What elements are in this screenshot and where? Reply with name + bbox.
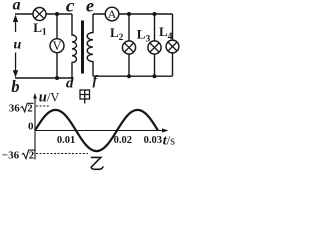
arrow down (voltage u, bottom): [13, 53, 18, 78]
svg-text:u: u: [14, 38, 22, 53]
wire branch L3: [154, 14, 156, 76]
svg-text:t/s: t/s: [163, 133, 175, 148]
wire branch L2: [128, 14, 130, 76]
voltmeter V: [50, 39, 64, 53]
graph y-axis: [34, 97, 36, 160]
transformer core: [81, 21, 84, 74]
graph x-axis: [35, 130, 163, 132]
wire voltmeter branch: [56, 14, 58, 78]
svg-text:c: c: [66, 0, 75, 16]
junction dot (top L2 tap): [127, 12, 131, 16]
svg-text:e: e: [86, 0, 94, 15]
dashed level -36root2: [36, 153, 88, 155]
dashed level +36root2: [36, 105, 50, 107]
wire top-right (e to L4 branch): [93, 13, 173, 15]
svg-text:V: V: [52, 39, 61, 53]
figure label jia (circuit): [80, 90, 90, 104]
junction dot (bottom L3 tap): [153, 74, 157, 78]
svg-text:2: 2: [29, 150, 34, 161]
svg-text:0.01: 0.01: [57, 135, 75, 146]
lamp L3: [148, 41, 161, 54]
svg-text:A: A: [108, 7, 117, 21]
transformer secondary coil: [87, 14, 93, 76]
lamp L4: [166, 40, 179, 53]
y value minus 36root2: [2, 149, 36, 161]
wire top-left (a to c): [15, 13, 72, 15]
svg-text:u/V: u/V: [39, 89, 60, 105]
lamp L1: [33, 8, 46, 21]
svg-text:0.02: 0.02: [114, 135, 132, 146]
wire branch L4 (right edge): [172, 14, 174, 76]
svg-text:36: 36: [9, 103, 20, 115]
svg-text:d: d: [66, 76, 74, 92]
svg-text:a: a: [13, 0, 21, 13]
sine curve u(t): [35, 110, 158, 151]
lamp L2: [122, 41, 135, 54]
arrow up (voltage u, top): [13, 15, 18, 32]
figure label yi (graph): [91, 157, 103, 169]
svg-text:2: 2: [27, 104, 32, 115]
svg-text:−36: −36: [2, 149, 20, 161]
junction dot (bottom L2 tap): [127, 74, 131, 78]
junction dot (top L3 tap): [153, 12, 157, 16]
svg-text:b: b: [11, 77, 19, 96]
junction dot (bottom voltmeter tap): [55, 76, 59, 80]
svg-text:0: 0: [28, 121, 34, 133]
wire bottom-right (f rail): [93, 75, 173, 77]
y value 36root2: [9, 103, 34, 115]
ammeter A: [105, 7, 119, 21]
wire bottom-left (b to d): [15, 77, 72, 79]
svg-text:0.03: 0.03: [144, 135, 162, 146]
transformer primary coil: [72, 14, 77, 78]
junction dot (top voltmeter tap): [55, 12, 59, 16]
